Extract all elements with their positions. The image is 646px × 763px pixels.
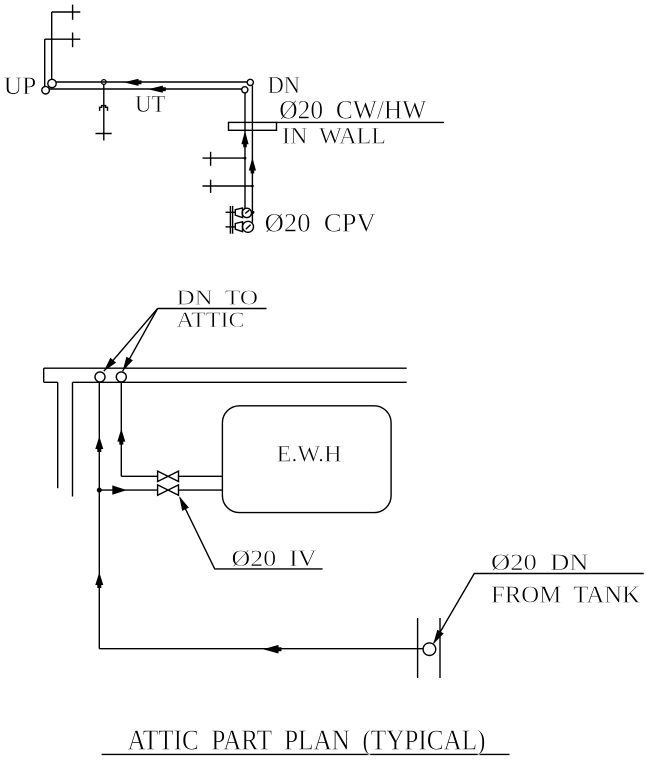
DN riser right vertical bbox=[251, 86, 253, 223]
junction circle UT drop bbox=[101, 80, 106, 85]
svg-text:Ø20 CPV: Ø20 CPV bbox=[265, 207, 376, 237]
from-tank circle bbox=[423, 643, 436, 656]
UT vent symbol bbox=[100, 106, 108, 111]
CPV wall double line a bbox=[229, 206, 231, 234]
pipe upper valve to tank bbox=[179, 475, 223, 477]
ceiling bottom line right seg bbox=[73, 381, 407, 383]
pipe riser inner vertical bbox=[51, 12, 53, 79]
valve 1 bowtie bbox=[158, 471, 179, 481]
riser tick line 3 bbox=[203, 157, 246, 159]
junction dot pipe 1 bbox=[97, 488, 102, 493]
pipe 1 branch horizontal bbox=[99, 489, 157, 491]
arrow up on pipe 1 low bbox=[95, 572, 103, 588]
leader line to circle 2 bbox=[123, 309, 158, 372]
riser tick line top bbox=[52, 11, 81, 13]
riser tick cross 4 bbox=[210, 180, 212, 193]
CPV tick top bbox=[226, 211, 236, 213]
faucet bottom body bbox=[235, 222, 242, 232]
pipe horizontal bottom line bbox=[49, 88, 241, 90]
leader arrowhead at valve 2 bbox=[179, 496, 189, 511]
tank E.W.H outline bbox=[222, 406, 391, 513]
faucet top handle mark bbox=[245, 210, 249, 213]
svg-text:DN TO: DN TO bbox=[177, 285, 259, 309]
arrow up on DN riser right line bbox=[249, 158, 256, 174]
ceiling top line bbox=[44, 367, 407, 369]
wall vertical 2 bbox=[72, 382, 74, 496]
arrow left on bottom pipe line bbox=[148, 86, 166, 93]
pipe lower valve to tank bbox=[179, 489, 223, 491]
leader line DN FROM TANK bbox=[434, 574, 644, 644]
arrow left on bottom pipe bbox=[263, 645, 282, 654]
pipe 1 vertical bbox=[98, 382, 100, 649]
wall vertical 1 bbox=[57, 382, 59, 488]
svg-text:Ø20 CW/HW: Ø20 CW/HW bbox=[279, 96, 426, 125]
arrow up on DN riser left line bbox=[241, 131, 248, 148]
svg-text:Ø20 DN: Ø20 DN bbox=[491, 550, 589, 576]
svg-text:UT: UT bbox=[135, 91, 166, 118]
wall bar rect bbox=[229, 122, 277, 130]
label underline DN TO bbox=[158, 308, 267, 310]
tick junction dot 3 bbox=[244, 157, 247, 160]
faucet bottom circle bbox=[243, 221, 254, 232]
arrow up on pipe 2 bbox=[117, 429, 125, 445]
ceiling left edge bbox=[43, 368, 45, 382]
elbow arc DN top bbox=[247, 79, 253, 85]
riser tick bottom 2 bbox=[439, 618, 441, 678]
UT drop cross tick bbox=[96, 133, 112, 135]
elbow arc UP outer bbox=[42, 86, 50, 94]
svg-text:IN WALL: IN WALL bbox=[282, 124, 386, 149]
valve 2 bowtie bbox=[158, 485, 179, 495]
leader arrowhead at circle 2 bbox=[123, 357, 133, 372]
riser tick line 4 bbox=[203, 185, 253, 187]
pipe 2 vertical bbox=[120, 382, 122, 476]
pipe 2 horizontal to valve bbox=[121, 475, 157, 477]
arrow left on top pipe line bbox=[124, 79, 142, 86]
leader arrowhead at circle 1 bbox=[104, 358, 116, 371]
svg-text:Ø20 IV: Ø20 IV bbox=[232, 546, 317, 572]
CPV tick bottom bbox=[226, 226, 236, 228]
attic drop circle 2 bbox=[116, 372, 126, 382]
svg-text:FROM TANK: FROM TANK bbox=[491, 581, 640, 608]
riser tick cross 3 bbox=[210, 152, 212, 166]
leader arrowhead at from-tank circle bbox=[433, 630, 444, 644]
faucet bottom handle mark bbox=[246, 225, 251, 230]
elbow arc DN bottom bbox=[242, 87, 248, 93]
attic drop circle 1 bbox=[95, 372, 105, 382]
DN riser left vertical bbox=[244, 93, 246, 209]
faucet top circle bbox=[242, 208, 251, 217]
bottom pipe horizontal bbox=[99, 648, 423, 650]
CPV wall double line b bbox=[232, 206, 234, 234]
riser tick bottom 1 bbox=[417, 618, 419, 678]
riser tick cross second bbox=[72, 33, 74, 48]
leader line to circle 1 bbox=[104, 309, 158, 372]
pipe riser outer vertical bbox=[44, 39, 46, 86]
pipe horizontal top line bbox=[56, 81, 247, 83]
UT drop line bbox=[103, 84, 105, 140]
svg-text:UP: UP bbox=[4, 71, 37, 100]
elbow arc UP inner bbox=[48, 79, 56, 87]
faucet connection dot bbox=[251, 211, 254, 214]
ceiling bottom line left seg bbox=[44, 381, 58, 383]
leader line IV label bbox=[180, 498, 323, 569]
title underline bbox=[102, 753, 510, 755]
svg-text:ATTIC: ATTIC bbox=[177, 307, 245, 332]
faucet top body bbox=[235, 208, 242, 218]
arrow up on pipe 1 mid bbox=[95, 436, 103, 452]
riser tick cross top bbox=[72, 5, 74, 20]
riser tick line second bbox=[45, 38, 81, 40]
tick junction dot 4 bbox=[251, 185, 254, 188]
arrow right on branch bbox=[112, 485, 127, 494]
label underline CW/HW bbox=[277, 121, 445, 123]
svg-text:E.W.H: E.W.H bbox=[277, 441, 342, 467]
svg-text:ATTIC PART PLAN (TYPICAL): ATTIC PART PLAN (TYPICAL) bbox=[128, 725, 486, 756]
